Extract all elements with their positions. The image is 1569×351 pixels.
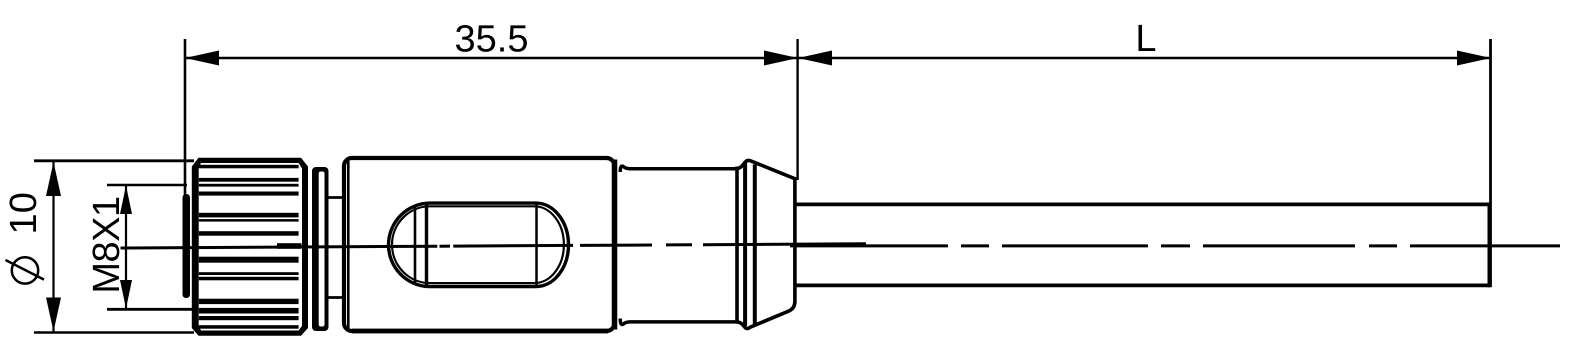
knurl bands	[199, 165, 302, 329]
body right edge thick	[612, 160, 618, 330]
dimension 35.5	[185, 19, 798, 197]
extension line bottom (y=332.5)	[34, 331, 194, 334]
arrowhead down	[120, 280, 132, 309]
arrowhead up	[120, 186, 132, 215]
dimension line 35.5	[185, 57, 798, 59]
cylinder top edge	[620, 166, 736, 172]
arrowhead up	[46, 162, 61, 196]
taper outline	[737, 160, 795, 328]
extension line bottom (y=309)	[107, 308, 194, 311]
dimension line	[52, 161, 54, 333]
arrowhead left	[185, 51, 219, 66]
cable end edge	[1488, 203, 1492, 288]
taper ring line right	[753, 165, 757, 325]
thread barrel M8	[183, 194, 191, 298]
dimension L	[798, 18, 1491, 287]
taper ring line left	[743, 163, 747, 326]
body inner line left	[347, 161, 350, 328]
cylinder bottom edge	[620, 319, 736, 325]
collar ring	[312, 167, 329, 331]
arrowhead right	[764, 51, 798, 66]
centerline thick dash inside nut	[277, 243, 302, 249]
svg-text:L: L	[1135, 18, 1156, 60]
dimension M8X1	[86, 185, 194, 309]
arrowhead down	[46, 298, 61, 332]
knurled nut silhouette	[192, 158, 308, 336]
svg-text:35.5: 35.5	[455, 19, 529, 61]
centerline cable	[790, 244, 1560, 247]
oval chord lines	[414, 207, 417, 284]
label dia symbol	[12, 257, 38, 283]
body	[344, 158, 615, 331]
extension line right (x=1490.5)	[1489, 39, 1492, 287]
arrowhead right	[1457, 51, 1491, 66]
extension line top (y=161)	[34, 159, 194, 162]
cable bottom edge	[795, 283, 1490, 287]
svg-text:10: 10	[3, 192, 45, 234]
centerline connector (slightly sloped)	[121, 244, 867, 248]
dimension line	[125, 185, 127, 309]
oval recess outer	[389, 203, 569, 287]
dimension dia 10	[3, 161, 194, 333]
svg-text:M8X1: M8X1	[86, 196, 128, 293]
dimension line L	[798, 57, 1491, 59]
cable top edge	[795, 202, 1490, 206]
oval recess inner	[392, 206, 564, 283]
extension line top (y=185)	[107, 184, 187, 187]
neck lines	[329, 196, 347, 199]
cylinder end line	[735, 167, 739, 324]
extension line left (x=185)	[184, 39, 187, 196]
extension line middle (x=798)	[796, 39, 798, 180]
arrowhead left	[798, 51, 832, 66]
body bottom edge	[352, 329, 608, 334]
